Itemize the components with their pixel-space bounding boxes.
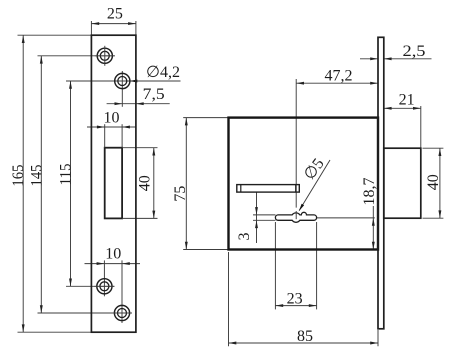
svg-text:40: 40 <box>425 174 442 190</box>
svg-text:10: 10 <box>104 110 120 127</box>
svg-text:18,7: 18,7 <box>361 178 378 206</box>
svg-text:85: 85 <box>297 328 313 345</box>
svg-text:165: 165 <box>10 165 27 187</box>
svg-text:145: 145 <box>29 165 46 187</box>
svg-text:2,5: 2,5 <box>403 43 426 60</box>
svg-text:25: 25 <box>107 6 123 23</box>
svg-text:∅4,2: ∅4,2 <box>146 64 180 81</box>
svg-text:21: 21 <box>399 91 415 108</box>
svg-text:7,5: 7,5 <box>143 86 165 103</box>
svg-text:40: 40 <box>137 175 154 191</box>
svg-text:75: 75 <box>172 186 189 202</box>
svg-text:10: 10 <box>105 246 121 263</box>
svg-text:115: 115 <box>58 164 75 186</box>
svg-text:3: 3 <box>236 233 253 241</box>
svg-text:47,2: 47,2 <box>325 67 353 84</box>
svg-text:23: 23 <box>287 291 303 308</box>
